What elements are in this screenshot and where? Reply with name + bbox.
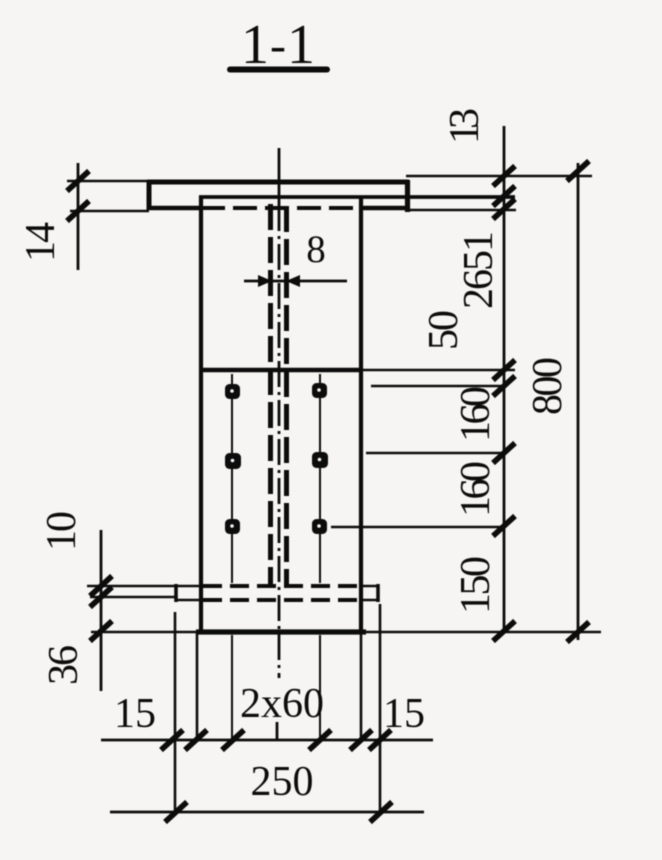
svg-text:8: 8 [306, 228, 326, 271]
top plate outline [147, 180, 409, 212]
bolt row 3 left [225, 519, 240, 534]
hidden plate bottom edge (dashed across column) [201, 206, 361, 210]
right extension at flange [410, 209, 516, 212]
bolt row 2 left [225, 453, 241, 469]
svg-text:2x60: 2x60 [240, 681, 324, 727]
bolt row 1 right [312, 383, 327, 398]
column box right edge [359, 196, 363, 632]
beam flange line [199, 195, 515, 199]
section title 1-1 [230, 14, 327, 76]
bottom dimension line 15/2x60/15 [101, 730, 433, 750]
svg-text:13: 13 [442, 108, 488, 144]
svg-text:160: 160 [453, 461, 499, 517]
svg-text:15: 15 [114, 691, 156, 737]
svg-text:36: 36 [41, 645, 87, 685]
hidden beam web right edge (dashed) [284, 206, 289, 586]
bolt column centerline right [319, 374, 321, 740]
dimension line 10/36 [90, 530, 112, 691]
bottom extension verticals [175, 604, 380, 812]
overall dimension line 800 [567, 161, 589, 642]
left top extension lines [67, 181, 149, 211]
column bottom edge [91, 629, 601, 634]
bolt row 2 right [312, 452, 328, 468]
column box left edge [199, 196, 203, 632]
bolt row 3 right [312, 519, 327, 534]
left bottom extension lines [87, 586, 175, 597]
svg-text:10: 10 [39, 511, 85, 551]
bottom plate hidden edges (dashed) [203, 586, 359, 600]
bolt column centerline left [231, 374, 233, 740]
hidden beam web left edge (dashed) [268, 204, 273, 586]
bolt row 1 left [225, 384, 240, 399]
web thickness dimension 8 [244, 228, 347, 287]
bolt row extension lines right [331, 386, 504, 527]
centerline vertical axis [277, 148, 279, 740]
svg-text:-: - [270, 19, 286, 72]
bottom plate [175, 584, 379, 602]
svg-text:150: 150 [453, 556, 499, 614]
svg-text:2651: 2651 [456, 231, 502, 309]
svg-text:15: 15 [383, 691, 425, 737]
svg-text:250: 250 [251, 759, 314, 805]
dimension line 14 [67, 163, 89, 270]
right top extension line [406, 175, 592, 178]
column mid line [200, 368, 515, 373]
svg-text:14: 14 [18, 222, 64, 262]
bottom dimension line 250 [110, 802, 424, 822]
right dimension chain line [493, 126, 515, 641]
svg-text:800: 800 [525, 357, 571, 415]
svg-text:50: 50 [421, 310, 467, 350]
svg-text:160: 160 [453, 386, 499, 442]
